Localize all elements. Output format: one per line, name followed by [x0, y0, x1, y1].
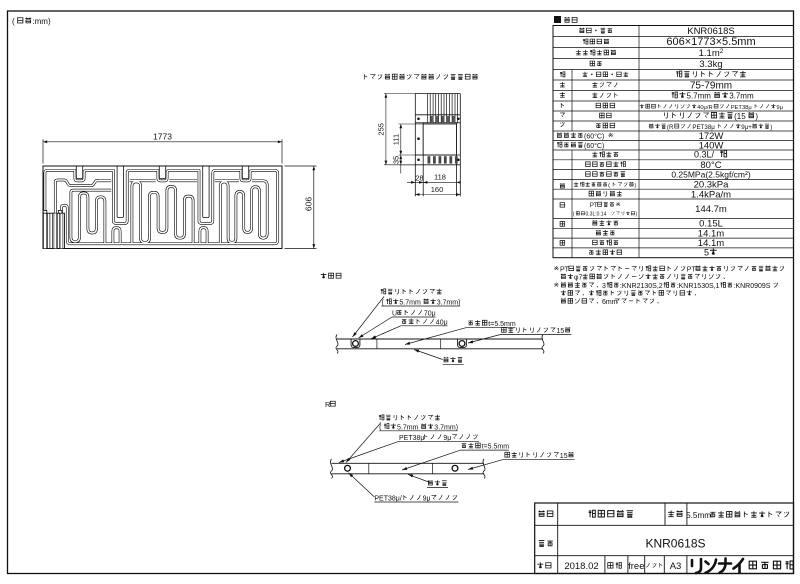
- spec table heading (■仕様): [554, 16, 561, 23]
- title block: 品名: [668, 511, 674, 517]
- svg-text:160: 160: [431, 185, 444, 194]
- detail drawing title (マット内床落とし施工での開口寸法): [364, 74, 367, 79]
- svg-text:φ7: φ7: [574, 275, 583, 282]
- svg-text:9μ: 9μ: [443, 435, 451, 442]
- svg-text:1773: 1773: [153, 132, 172, 142]
- svg-text:PET38μ/: PET38μ/: [374, 496, 401, 503]
- detail: six tube pairs at top: [428, 94, 458, 123]
- title block: 名称: [538, 510, 544, 516]
- svg-text:): ): [755, 112, 758, 121]
- label 不織布 (R): [428, 480, 433, 485]
- svg-text:5.7mm: 5.7mm: [397, 424, 419, 431]
- svg-text:9μ+: 9μ+: [741, 124, 752, 131]
- five joist slots (小根太): [76, 166, 248, 218]
- svg-text:PT: PT: [590, 202, 598, 209]
- svg-text:28: 28: [415, 173, 423, 182]
- dimension 255: [377, 94, 416, 165]
- heating tube circuit (white inner strokes): [45, 170, 278, 244]
- label 小根太t=5.5mm (R): [462, 444, 467, 448]
- svg-text:6mm: 6mm: [602, 299, 618, 306]
- svg-text:PET38μ: PET38μ: [692, 124, 715, 131]
- svg-text:t=5.5mm: t=5.5mm: [482, 444, 510, 451]
- svg-text:2018.02: 2018.02: [564, 561, 598, 572]
- straight-section label (直線部): [321, 273, 327, 279]
- svg-text:3: 3: [602, 283, 606, 290]
- dimension 606 with extension lines: [285, 166, 317, 249]
- group label マット: [561, 103, 564, 108]
- svg-text:5.7mm: 5.7mm: [399, 300, 421, 307]
- svg-text::KNR0909S: :KNR0909S: [734, 283, 771, 290]
- detail drawing outline: [415, 94, 460, 197]
- svg-text::mm): :mm): [32, 17, 51, 26]
- svg-text:(: (: [12, 17, 15, 26]
- 株式会社 text: [749, 561, 756, 569]
- svg-text:(: (: [608, 183, 610, 189]
- svg-text:PET38μ: PET38μ: [399, 435, 424, 442]
- group label 設計関係: [560, 183, 565, 188]
- svg-text:0.3L/: 0.3L/: [694, 150, 715, 160]
- svg-text:35: 35: [391, 156, 400, 164]
- svg-text:40μ/R: 40μ/R: [697, 105, 713, 111]
- svg-text:5.5mm: 5.5mm: [686, 511, 711, 520]
- dimension 1773 with extension lines: [43, 132, 282, 164]
- detail: lower joist band: [415, 155, 460, 165]
- svg-text:3.7mm: 3.7mm: [729, 92, 754, 101]
- R-section tube 2: [452, 465, 458, 471]
- table row labels: [579, 28, 584, 33]
- heating tube circuit (black outer strokes): [45, 170, 278, 244]
- table footnotes: [554, 266, 559, 270]
- svg-text:(15: (15: [734, 112, 746, 121]
- svg-text:14.1m: 14.1m: [698, 238, 724, 249]
- svg-text:111: 111: [391, 134, 400, 145]
- svg-text:3.7mm): 3.7mm): [437, 300, 461, 307]
- title block: 作成: [537, 562, 543, 568]
- svg-text:A3: A3: [670, 561, 682, 572]
- title block frame: [535, 503, 794, 574]
- svg-text:PT: PT: [687, 267, 697, 274]
- svg-text:606: 606: [304, 197, 314, 211]
- svg-text:40μ: 40μ: [436, 319, 448, 326]
- straight-section tube with U foil: [353, 341, 359, 347]
- svg-text:free: free: [628, 561, 644, 572]
- svg-text:15: 15: [560, 453, 568, 460]
- label 小根太t=5.5mm (straight): [468, 321, 473, 325]
- label 架橋ポリエチレン管 (straight): [381, 289, 386, 294]
- svg-text:15: 15: [557, 328, 565, 335]
- svg-text:): ): [635, 183, 637, 189]
- spec table grid: [553, 26, 794, 258]
- svg-text:PT: PT: [560, 267, 570, 274]
- svg-text:PET38μ: PET38μ: [731, 105, 752, 111]
- svg-text:118: 118: [434, 173, 446, 182]
- svg-text:): ): [770, 124, 772, 131]
- svg-text:606×1773×5.5mm: 606×1773×5.5mm: [666, 36, 755, 48]
- svg-text:9μ: 9μ: [423, 496, 431, 503]
- svg-text:70μ: 70μ: [424, 311, 436, 318]
- svg-text:0.25MPa(2.5kgf/cm²): 0.25MPa(2.5kgf/cm²): [671, 170, 751, 180]
- header connection area (hatched box): [43, 213, 65, 248]
- straight-section second tube: [459, 341, 465, 347]
- svg-text:1.4kPa/m: 1.4kPa/m: [691, 189, 731, 200]
- svg-text::KNR1530S,1: :KNR1530S,1: [677, 283, 720, 290]
- label 架橋ポリエチレン管 (R): [379, 415, 384, 420]
- svg-text:75-79mm: 75-79mm: [690, 81, 732, 92]
- Rinnai logo (リンナイ): [692, 559, 743, 574]
- title block: サイズ: [646, 563, 649, 567]
- straight-section mat bar: [336, 335, 544, 354]
- R-section tube 1: [345, 465, 351, 471]
- dimension 160: [415, 185, 460, 196]
- title block: 尺度: [608, 563, 613, 569]
- detail: opening rectangle: [423, 124, 456, 155]
- group label 放熱管: [560, 72, 565, 77]
- label 発泡ポリスチレン15倍 (straight): [502, 327, 507, 332]
- svg-text:0.3L:0.14: 0.3L:0.14: [586, 212, 607, 218]
- dimensions 28 and 118: [407, 173, 461, 184]
- svg-text:(60°C): (60°C): [584, 132, 604, 140]
- svg-text:(60°C): (60°C): [584, 142, 604, 150]
- svg-text:255: 255: [377, 123, 386, 136]
- title block: 型式: [539, 541, 545, 547]
- label 均熱アルミ40μ (straight): [402, 319, 407, 323]
- svg-text:144.7m: 144.7m: [695, 204, 727, 215]
- svg-text:3.7mm): 3.7mm): [434, 424, 458, 431]
- svg-text:(R: (R: [667, 124, 674, 131]
- title block: 外形寸法図: [589, 510, 596, 517]
- svg-text:5.7mm: 5.7mm: [687, 92, 712, 101]
- tube channels passing through header box: [44, 213, 63, 248]
- label 発泡ポリスチレン15倍 (R): [505, 452, 510, 457]
- svg-text::KNR2130S,2: :KNR2130S,2: [620, 283, 663, 290]
- svg-text:KNR0618S: KNR0618S: [645, 537, 705, 551]
- dimension 111: [391, 124, 423, 155]
- dimension 35: [391, 155, 415, 174]
- svg-text:3.3kg: 3.3kg: [699, 59, 722, 70]
- heating mat outline: [43, 166, 282, 249]
- R-section mat bar: [330, 459, 485, 479]
- detail: upper joist band: [415, 115, 460, 123]
- svg-text:5: 5: [704, 248, 709, 258]
- svg-text:U: U: [392, 311, 397, 318]
- tube fittings on header box: [43, 210, 47, 213]
- svg-text:9μ: 9μ: [776, 105, 783, 111]
- label 不織布 (straight): [443, 357, 448, 362]
- svg-text:t=5.5mm: t=5.5mm: [488, 321, 516, 328]
